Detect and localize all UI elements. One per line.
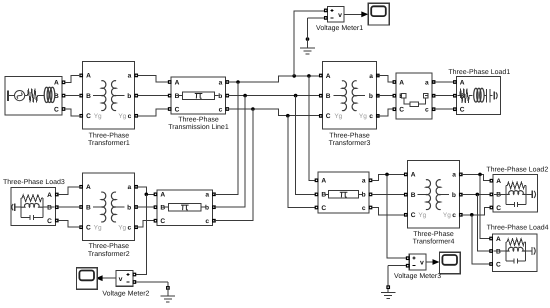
svg-text:a: a (452, 172, 456, 179)
wire T4 b to Load2 B (461, 193, 491, 195)
wire Voltage Meter2 - to ground (136, 281, 168, 283)
AC voltage source with source impedance (Three-Phase Source) (5, 76, 65, 115)
svg-text:c: c (452, 212, 456, 219)
svg-text:b: b (127, 93, 131, 100)
svg-text:B: B (326, 93, 331, 100)
svg-text:Three-Phase: Three-Phase (413, 230, 454, 238)
junction T4 b / Load4 tap (476, 193, 480, 197)
Three-Phase Transformer4 (405, 160, 463, 245)
svg-text:Three-Phase Load3: Three-Phase Load3 (3, 178, 65, 186)
wire b down to Load4 B (477, 194, 490, 251)
ground G2 (Voltage Meter2) (161, 282, 176, 302)
svg-text:a: a (369, 73, 373, 80)
svg-text:A: A (326, 73, 331, 80)
svg-text:a: a (425, 79, 429, 86)
wire T1 b to Line1 B (137, 95, 168, 97)
wire block c to Load1 C (433, 108, 455, 110)
wire source C to Transformer1 C (64, 109, 79, 116)
svg-text:v: v (119, 276, 123, 283)
svg-text:A: A (160, 192, 165, 199)
svg-text:B: B (86, 93, 91, 100)
wire bus phase a (Line1 a to Transformer3 A) (228, 76, 320, 82)
svg-text:A: A (47, 192, 52, 199)
svg-text:A: A (321, 178, 326, 185)
svg-text:C: C (496, 261, 501, 268)
junction bus b / line2 tap (243, 94, 247, 98)
svg-text:Yg: Yg (118, 224, 126, 231)
junction meter1 ground wire (306, 37, 310, 41)
wire Line2 a up to bus a (214, 82, 238, 194)
svg-text:Yg: Yg (443, 212, 451, 219)
svg-text:b: b (362, 192, 366, 199)
wire T3 a to measurement block A (377, 76, 394, 83)
signal wire Voltage Meter2 to Scope2 (96, 275, 117, 281)
wire T1 c to Line1 C (137, 109, 168, 116)
three-phase transmission line 3 (pi section) (315, 172, 372, 213)
svg-text:C: C (321, 205, 326, 212)
wire source B to Transformer1 B (64, 95, 79, 97)
svg-text:C: C (496, 205, 501, 212)
svg-text:B: B (321, 192, 326, 199)
wire Voltage Meter3 - to ground (388, 265, 406, 267)
svg-text:b: b (452, 192, 456, 199)
Voltage Meter1 (316, 6, 363, 31)
wire bus c down to Line3 C (288, 116, 316, 208)
svg-text:b: b (369, 93, 373, 100)
wire c down to Load4 C (472, 215, 491, 264)
svg-text:C: C (86, 225, 91, 232)
svg-text:Transformer1: Transformer1 (88, 139, 130, 147)
svg-text:Three-Phase: Three-Phase (89, 131, 130, 139)
wire T3 c to measurement block C (377, 109, 394, 116)
junction bus a / meter1 tap (292, 74, 296, 78)
three-phase transmission line 2 (pi section) (154, 190, 215, 226)
svg-text:C: C (160, 218, 165, 225)
svg-text:c: c (425, 107, 429, 114)
svg-text:Transmission Line1: Transmission Line1 (168, 123, 229, 131)
wire T3 b to measurement block B (377, 95, 394, 97)
wire tap down to Voltage Meter3 + (387, 174, 406, 258)
svg-text:Three-Phase: Three-Phase (89, 242, 130, 250)
svg-text:Yg: Yg (94, 113, 102, 120)
svg-text:B: B (496, 192, 501, 199)
svg-text:A: A (496, 178, 501, 185)
svg-text:C: C (47, 218, 52, 225)
junction bus c / line2 tap (251, 107, 255, 111)
wire T2 a to Line2 A (137, 187, 156, 195)
junction T4 A / meter3 tap (385, 173, 389, 177)
svg-text:B: B (47, 205, 52, 212)
svg-text:B: B (496, 248, 501, 255)
svg-text:c: c (219, 106, 223, 113)
svg-text:A: A (86, 184, 91, 191)
svg-text:b: b (127, 204, 131, 211)
svg-text:B: B (411, 192, 416, 199)
Scope3 (440, 252, 461, 274)
junction T4 a / Load4 tap (478, 173, 482, 177)
svg-text:A: A (411, 172, 416, 179)
svg-text:Yg: Yg (94, 224, 102, 231)
svg-text:c: c (362, 205, 366, 212)
svg-text:Voltage Meter2: Voltage Meter2 (102, 289, 149, 297)
ground G1 (Voltage Meter1) (300, 18, 315, 54)
Three-Phase Load3 (parallel RLC load) (3, 178, 65, 226)
svg-text:C: C (460, 107, 465, 114)
svg-text:Yg: Yg (359, 113, 367, 120)
svg-text:B: B (86, 204, 91, 211)
svg-text:Yg: Yg (118, 113, 126, 120)
signal wire Voltage Meter1 to Scope1 (344, 11, 368, 17)
svg-text:a: a (205, 192, 209, 199)
wire Load3 A to Transformer2 A (57, 187, 79, 195)
wire a down to Load4 A (480, 174, 491, 238)
Three-Phase Load2 (parallel RLC load) (486, 165, 548, 211)
wire Load3 B to Transformer2 B (57, 206, 79, 208)
wire Line2 b up to bus b (214, 96, 245, 208)
svg-text:Three-Phase: Three-Phase (329, 131, 370, 139)
svg-text:C: C (326, 113, 331, 120)
svg-text:C: C (175, 106, 180, 113)
wire T2 c to Line2 C (137, 221, 156, 227)
wire Line2 c up to bus c (214, 109, 253, 221)
svg-text:b: b (205, 205, 209, 212)
svg-text:Yg: Yg (334, 113, 342, 120)
svg-text:Three-Phase Load1: Three-Phase Load1 (448, 68, 510, 76)
wire bus a up to Voltage Meter1 + (294, 11, 324, 76)
svg-text:B: B (175, 93, 180, 100)
svg-text:C: C (86, 113, 91, 120)
wire Line3 c to Transformer4 C (371, 208, 406, 215)
Three-Phase Transmission Line1 (168, 77, 229, 131)
junction bus a / line3 tap (307, 74, 311, 78)
signal wire Voltage Meter3 to Scope3 (426, 259, 440, 265)
wire tap to Voltage Meter2 + (136, 194, 147, 274)
wire block a to Load1 A (433, 81, 455, 83)
svg-text:A: A (86, 73, 91, 80)
Scope2 (77, 268, 98, 290)
svg-text:a: a (219, 79, 223, 86)
wire block b to Load1 B (433, 95, 455, 97)
wire bus b down to Line3 B (296, 96, 317, 195)
svg-text:v: v (420, 260, 424, 267)
svg-text:Transformer4: Transformer4 (413, 238, 455, 246)
svg-text:B: B (160, 205, 165, 212)
svg-text:Voltage Meter1: Voltage Meter1 (316, 24, 363, 32)
wire T4 c to Load2 C (461, 208, 491, 215)
svg-text:a: a (128, 184, 132, 191)
svg-text:c: c (128, 225, 132, 232)
svg-text:A: A (399, 79, 404, 86)
svg-text:b: b (218, 93, 222, 100)
wire T2 b to Line2 B (137, 206, 156, 208)
Three-Phase Load1 (series RLC load) (448, 68, 510, 115)
svg-text:Transformer2: Transformer2 (88, 250, 130, 258)
junction T4 c / Load4 tap (470, 213, 474, 217)
svg-text:Three-Phase: Three-Phase (178, 115, 219, 123)
Three-Phase Load4 (parallel RLC load) (487, 223, 549, 271)
wire T1 a to Line1 A (137, 75, 168, 82)
svg-text:A: A (54, 80, 59, 87)
Voltage Meter2 (102, 271, 149, 298)
svg-text:A: A (496, 236, 501, 243)
svg-text:Yg: Yg (418, 212, 426, 219)
junction bus a / line2 tap (236, 80, 240, 84)
svg-text:Transformer3: Transformer3 (329, 139, 371, 147)
svg-text:a: a (362, 178, 366, 185)
ground G3 (Voltage Meter3) (381, 266, 396, 299)
svg-text:c: c (128, 113, 132, 120)
svg-text:A: A (460, 79, 465, 86)
wire T4 a to Load2 A (461, 174, 491, 180)
svg-text:C: C (54, 106, 59, 113)
Voltage Meter3 (394, 254, 441, 280)
wire Line3 a to Transformer4 A (371, 174, 406, 180)
wire Voltage Meter1 - to ground (308, 17, 326, 19)
junction bus c / line3 tap (286, 114, 290, 118)
three-phase series measurement block (393, 73, 435, 119)
svg-text:a: a (128, 73, 132, 80)
svg-text:C: C (411, 212, 416, 219)
junction T2 a / meter2 tap (145, 193, 149, 197)
wire bus a down to Line3 A (309, 76, 316, 180)
svg-text:v: v (338, 12, 342, 19)
Three-Phase Transformer2 (80, 173, 138, 258)
svg-text:C: C (399, 107, 404, 114)
Three-Phase Transformer1 (80, 61, 138, 146)
wire Load3 C to Transformer2 C (57, 221, 79, 227)
wire Line3 b to Transformer4 B (371, 193, 406, 195)
Scope1 (368, 3, 389, 25)
svg-text:Three-Phase Load2: Three-Phase Load2 (486, 165, 548, 173)
svg-text:c: c (369, 113, 373, 120)
svg-text:c: c (205, 218, 209, 225)
junction bus b / line3 tap (294, 94, 298, 98)
Three-Phase Transformer3 (320, 62, 380, 147)
wire bus phase c (Line1 c to Transformer3 C) (228, 109, 320, 116)
svg-text:Voltage Meter3: Voltage Meter3 (394, 272, 441, 280)
wire bus phase b (Line1 b to Transformer3 B) (228, 95, 320, 97)
svg-text:Three-Phase Load4: Three-Phase Load4 (487, 223, 549, 231)
wire source A to Transformer1 A (64, 75, 79, 82)
svg-text:A: A (175, 79, 180, 86)
